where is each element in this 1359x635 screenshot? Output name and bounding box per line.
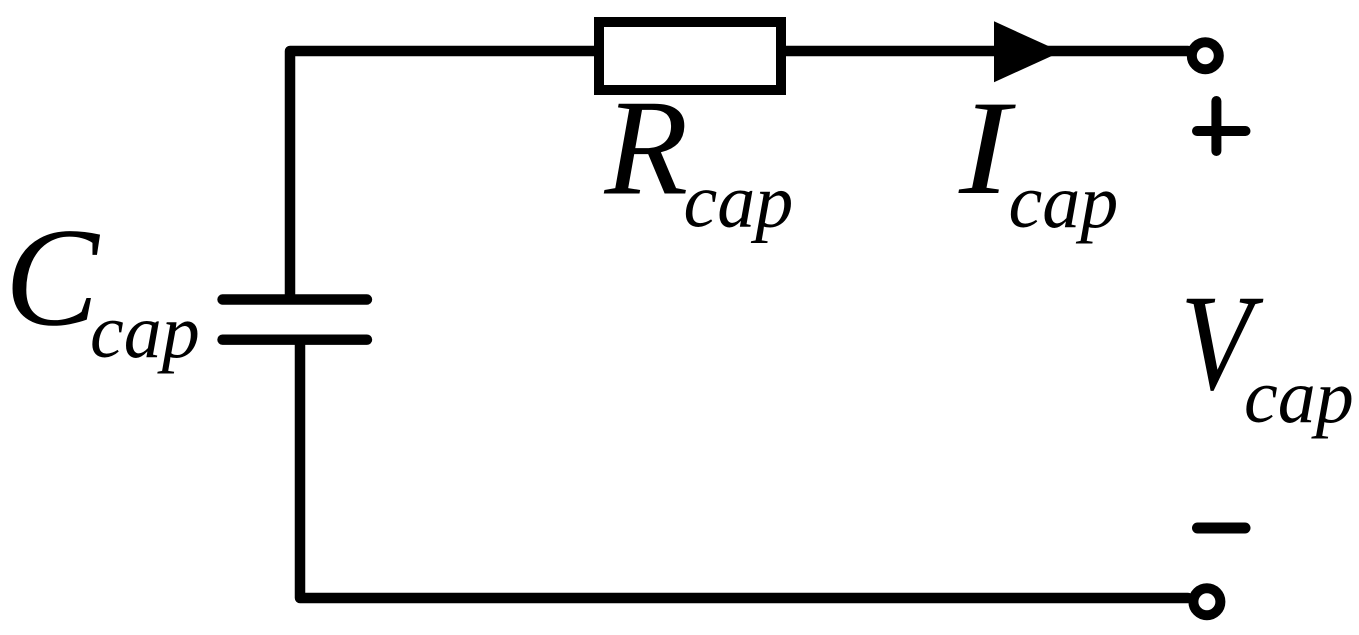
svg-text:cap: cap	[1244, 355, 1354, 439]
svg-text:C: C	[5, 200, 101, 356]
svg-text:cap: cap	[1009, 160, 1119, 244]
svg-text:R: R	[604, 72, 689, 224]
svg-text:cap: cap	[684, 160, 794, 244]
svg-text:I: I	[958, 74, 1016, 223]
svg-text:cap: cap	[90, 290, 200, 374]
